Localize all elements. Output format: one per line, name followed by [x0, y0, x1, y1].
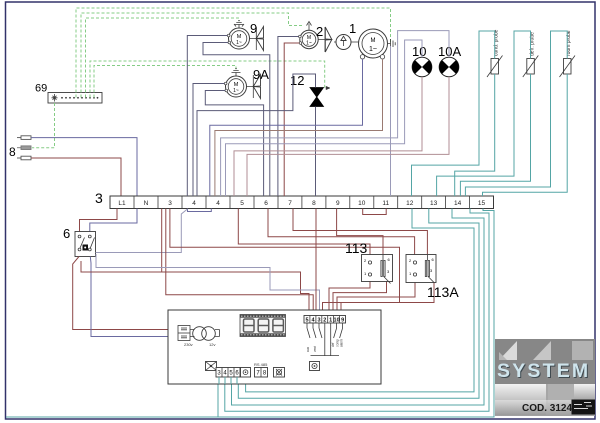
wire motor1 right foot to terminal 4 — [215, 59, 383, 196]
controller terminal 78 — [255, 368, 268, 378]
svg-text:1: 1 — [349, 21, 356, 36]
wire green bus G1 to motor1 ground — [76, 8, 391, 98]
svg-text:4: 4 — [192, 200, 196, 207]
wire motor2 bottom to terminal 7 — [284, 43, 299, 196]
svg-text:3: 3 — [168, 200, 172, 207]
svg-text:10: 10 — [334, 318, 340, 324]
svg-text:11: 11 — [382, 200, 389, 207]
wire jumper terminal 10 to 11 — [363, 209, 387, 215]
wire jumper terminal 4 to 4 — [188, 209, 212, 212]
svg-text:9A: 9A — [253, 67, 269, 82]
svg-text:10A: 10A — [438, 44, 461, 59]
wire green arrow at solenoid 12 — [326, 86, 330, 89]
pump — [334, 35, 359, 50]
relay 113A — [406, 255, 436, 283]
svg-text:N: N — [144, 200, 149, 207]
svg-text:aux: aux — [306, 346, 310, 352]
svg-text:12: 12 — [406, 200, 414, 207]
svg-text:1~: 1~ — [236, 40, 242, 46]
wire terminal 8 to controller block — [315, 209, 317, 316]
svg-text:9: 9 — [250, 21, 257, 36]
svg-text:1~: 1~ — [369, 46, 377, 53]
connector 8 terminal c — [17, 156, 31, 160]
svg-text:6: 6 — [63, 226, 70, 241]
svg-text:M: M — [371, 38, 376, 44]
svg-text:13: 13 — [430, 200, 438, 207]
controller icon A — [241, 368, 251, 378]
svg-text:15: 15 — [478, 200, 486, 207]
svg-text:2: 2 — [323, 318, 326, 324]
wire teal controller stub — [217, 384, 219, 417]
wire teal controller terminal stubs — [219, 377, 237, 384]
wire lamp10 top loop to terminal 4 — [226, 40, 423, 196]
wire motor9 top to terminal 4 — [187, 36, 227, 197]
motor 1 compressor — [359, 29, 396, 59]
svg-text:8: 8 — [9, 145, 16, 159]
wire cond probe lower to terminal 13 — [455, 74, 495, 196]
wire lamp10 bottom to terminal 5 — [234, 77, 422, 196]
lamp 10 — [412, 57, 432, 77]
svg-text:1~: 1~ — [233, 88, 239, 94]
wire item8 to terminal L1 — [31, 158, 121, 196]
svg-text:10: 10 — [358, 200, 366, 207]
cond probe — [487, 29, 503, 77]
motor 9A fan — [224, 69, 260, 99]
wire item8 to terminal N — [31, 138, 137, 196]
wire relay 113A coil out to controller block — [341, 283, 434, 312]
controller board U1 — [168, 310, 381, 384]
wire teal loop terminal 14 to controller — [232, 209, 485, 406]
wire switch row to controller block — [81, 261, 309, 311]
wire terminal 3 to relay bus to controller — [170, 209, 400, 312]
wire terminal L1 to switch 6 — [80, 209, 118, 232]
svg-text:SYSTEM: SYSTEM — [497, 360, 590, 382]
svg-text:9: 9 — [336, 200, 340, 207]
controller icon B — [274, 368, 285, 378]
wire switch6 side to transformer block — [96, 209, 188, 253]
lamp 10A — [439, 57, 459, 77]
svg-text:4: 4 — [216, 200, 220, 207]
wire lamp10A top loop to terminal 4 — [221, 31, 449, 196]
wire cond probe upper to terminal 12 — [412, 31, 495, 196]
wire motor1 left foot to terminal 4 — [210, 59, 363, 196]
svg-text:1: 1 — [329, 318, 332, 324]
wire motor9A top to terminal 4 — [193, 84, 224, 197]
wire green bus G4 — [90, 61, 326, 98]
wire terminal 6 to relay 113A pin2 — [268, 209, 415, 262]
SYSTEM watermark logo — [495, 339, 595, 416]
svg-text:2: 2 — [316, 24, 323, 39]
svg-text:5: 5 — [240, 200, 244, 207]
wire teal loop terminal 15 to controller — [225, 209, 489, 412]
svg-text:COD. 3124: COD. 3124 — [522, 403, 572, 414]
display — [240, 315, 286, 337]
svg-text:def: def — [331, 342, 335, 347]
connector 69 — [32, 8, 391, 148]
motor 9 fan — [227, 21, 263, 51]
svg-text:9: 9 — [341, 318, 344, 324]
wire solenoid bottom to terminal 8 — [315, 107, 317, 197]
svg-text:alarm: alarm — [340, 339, 344, 347]
terminal strip 3 — [110, 196, 494, 209]
wire room probe lower to terminal 15 — [483, 74, 568, 196]
wire motor1 ground to terminal 11 — [390, 46, 392, 196]
wire terminal 7 to relay 113A coil — [293, 209, 427, 260]
svg-text:230v: 230v — [184, 342, 193, 347]
svg-text:7: 7 — [288, 200, 292, 207]
relay 113 — [362, 255, 393, 284]
svg-text:vent: vent — [313, 346, 317, 352]
wire relay 113 pin5 to controller block — [329, 276, 370, 311]
wire motor9A bottom loop to terminal 6 — [205, 91, 263, 197]
svg-text:113: 113 — [345, 240, 368, 256]
wire terminal 3 to junction row — [161, 209, 163, 273]
svg-text:12v: 12v — [209, 342, 215, 347]
svg-text:12: 12 — [290, 73, 304, 88]
wire relay 113A pin5 to controller block — [337, 276, 415, 311]
svg-text:5: 5 — [305, 318, 308, 324]
svg-text:10: 10 — [412, 44, 426, 59]
wire solenoid top loop to terminal 4 — [197, 74, 316, 196]
wire green bus G3 to solenoid 12 — [86, 18, 240, 98]
wire switch row2 to controller block — [96, 254, 320, 311]
wire terminal 3 to controller block — [166, 209, 313, 312]
svg-text:1~: 1~ — [306, 41, 312, 47]
svg-text:113A: 113A — [427, 284, 459, 300]
wire relay 113 coil out to controller block — [333, 277, 387, 311]
controller terminal 3456 — [216, 368, 240, 378]
svg-text:8: 8 — [312, 200, 316, 207]
wire terminal 9 to relay 113 coil — [337, 209, 383, 260]
connector 8 terminal b — [17, 146, 31, 150]
svg-text:L1: L1 — [118, 200, 126, 207]
wire switch6 left leg to controller power — [73, 257, 178, 330]
controller power terminal — [178, 326, 190, 341]
solenoid valve 12 — [310, 88, 324, 107]
wire lamp10A bottom to terminal 5 — [247, 77, 449, 196]
wire room probe upper to terminal 15 — [465, 31, 567, 196]
room probe — [560, 30, 576, 77]
defr probe — [523, 32, 539, 77]
wire motor2 top to terminal 7 — [278, 37, 299, 197]
controller buzzer icon — [206, 362, 217, 371]
wire defr probe lower to terminal 14 — [460, 74, 530, 196]
svg-text:69: 69 — [35, 83, 47, 95]
wire teal loop terminal 12 to controller — [246, 209, 474, 392]
wire teal loop terminal 13 to controller — [238, 209, 479, 399]
controller relay terminal block — [304, 316, 346, 357]
wire switch6 right leg to controller power — [90, 257, 178, 337]
svg-text:14: 14 — [454, 200, 462, 207]
svg-text:6: 6 — [264, 200, 268, 207]
wire motor9 bottom loop to terminal 6 — [203, 43, 270, 197]
svg-text:RS 485: RS 485 — [254, 362, 268, 367]
controller icon C — [310, 362, 320, 371]
wire terminal 5 to relay 113 pin2 — [238, 209, 370, 262]
connector 8 terminal a — [17, 136, 31, 140]
svg-text:3: 3 — [317, 318, 320, 324]
svg-text:3: 3 — [95, 190, 103, 206]
wire green 69 to item 8 — [32, 103, 55, 148]
wire teal outer loop to border — [6, 209, 494, 418]
wire green bus G5 to motor9A ground — [94, 66, 236, 98]
transformer T1 — [184, 327, 220, 347]
wire terminal N to switch 6 — [90, 209, 137, 232]
motor 2 fan — [299, 22, 332, 53]
switch 6 — [75, 232, 96, 257]
wire green bus G2 to motor2 ground — [81, 13, 303, 98]
wire defr probe upper to terminal 14 — [437, 31, 531, 196]
